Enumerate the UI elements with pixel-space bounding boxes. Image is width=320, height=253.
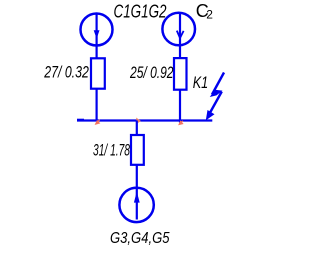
svg-text:G3,G4,G5: G3,G4,G5 [110, 230, 170, 247]
fault bolt K1: arrow head on bus [206, 110, 215, 120]
junction mark (red) at node 3 [179, 121, 183, 125]
bus bar [77, 119, 212, 121]
arrow head in source 3 (up) [134, 192, 140, 203]
junction mark (red) at node 1 [96, 120, 100, 124]
junction mark (red) at node 2 [137, 119, 140, 123]
fault bolt K1: middle zag (small arrow) [210, 90, 223, 97]
reactor X2 [174, 58, 187, 90]
svg-text:31/ 1.78: 31/ 1.78 [93, 140, 130, 159]
svg-text:2: 2 [206, 7, 213, 21]
wire: through source 1 down to reactor 1 [95, 15, 97, 59]
wire: reactor 1 to bus [95, 89, 97, 121]
source circle G1 (C1G1G2) [81, 14, 113, 46]
reactor X3 [131, 135, 144, 165]
arrow head in source 1 (down) [94, 30, 100, 39]
source circle C2 [162, 13, 195, 46]
wire: through source 2 down to reactor 2 [179, 14, 181, 59]
svg-text:25/ 0.92: 25/ 0.92 [129, 63, 174, 82]
wire: bus down to reactor 3 [136, 121, 138, 136]
source circle G3,G4,G5 [119, 188, 153, 222]
fault bolt K1: upper stroke [212, 73, 224, 95]
bus bar left end stub [77, 119, 84, 121]
arrow head in source 2 (open V, down) [177, 31, 184, 38]
wire: reactor 2 to bus [179, 90, 181, 123]
svg-text:27/ 0.32: 27/ 0.32 [44, 63, 90, 82]
fault bolt K1: lower stroke [209, 92, 222, 115]
svg-text:K1: K1 [193, 73, 209, 92]
wire: reactor 3 to source 3 [136, 165, 138, 190]
reactor X1 [91, 58, 105, 88]
svg-text:C1G1G2: C1G1G2 [114, 2, 167, 22]
wire inside source 3 [136, 190, 138, 220]
